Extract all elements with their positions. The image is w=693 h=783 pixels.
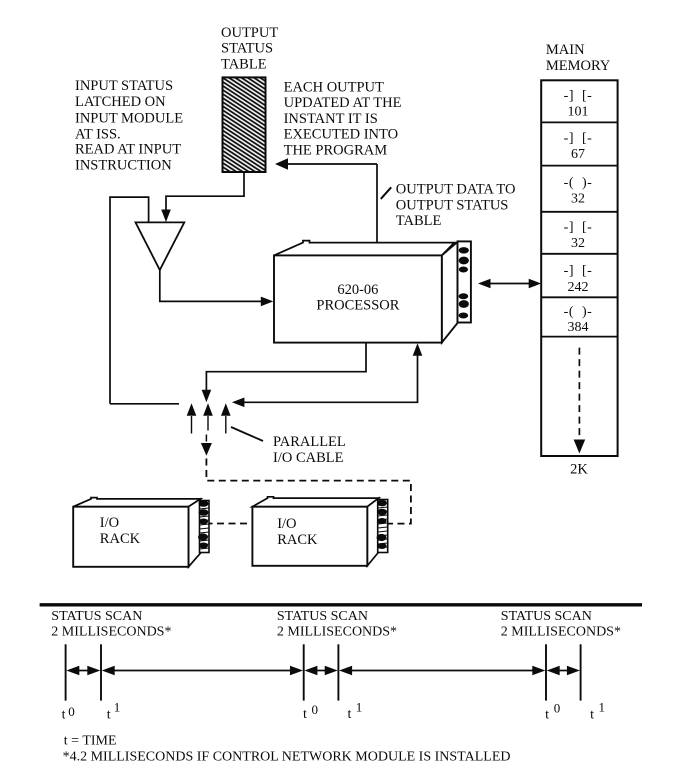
processor box (3D) [274, 241, 471, 343]
svg-text:*4.2 MILLISECONDS IF CONTROL N: *4.2 MILLISECONDS IF CONTROL NETWORK MOD… [63, 749, 511, 764]
wire: double arrow processor <-> main memory [489, 283, 531, 285]
wire: triangle output to processor (arrow right) [160, 270, 265, 301]
svg-text:THE PROGRAM: THE PROGRAM [284, 143, 388, 159]
svg-text:-] [-: -] [- [564, 220, 593, 235]
svg-text:67: 67 [571, 147, 585, 162]
span arrow long 2 [349, 670, 535, 672]
wire: stem from hatched table down-left into buffer triangle (arrowhead) [166, 172, 244, 211]
svg-text:STATUS SCAN: STATUS SCAN [277, 609, 368, 624]
svg-text:MEMORY: MEMORY [546, 58, 611, 74]
svg-text:OUTPUT: OUTPUT [221, 25, 278, 41]
svg-text:t: t [590, 708, 594, 723]
svg-text:0: 0 [312, 702, 319, 717]
svg-text:I/O CABLE: I/O CABLE [273, 450, 344, 466]
svg-text:2K: 2K [570, 462, 588, 478]
svg-text:AT ISS.: AT ISS. [75, 127, 121, 143]
svg-text:PROCESSOR: PROCESSOR [316, 298, 399, 314]
svg-text:t: t [545, 708, 549, 723]
svg-text:101: 101 [568, 104, 589, 119]
svg-text:MAIN: MAIN [546, 42, 585, 58]
dashed link rack1 to rack2 [194, 523, 252, 525]
svg-text:t: t [303, 707, 307, 722]
svg-text:2 MILLISECONDS*: 2 MILLISECONDS* [501, 625, 621, 640]
svg-text:INSTANT IT IS: INSTANT IT IS [284, 111, 378, 127]
timeline ticks [66, 644, 581, 700]
I/O rack 1 (3D box) [73, 498, 209, 567]
svg-text:t = TIME: t = TIME [64, 734, 117, 749]
wire: left feedback line bottom run [110, 403, 179, 405]
I/O rack 2 (3D box) [252, 497, 387, 566]
svg-text:EACH OUTPUT: EACH OUTPUT [284, 79, 384, 95]
svg-text:384: 384 [568, 320, 589, 335]
dashed arrow inside bottom memory cell [578, 348, 580, 438]
span arrow t0-t1 group2 [314, 670, 328, 672]
span arrow t0-t1 group3 [556, 670, 570, 672]
svg-text:242: 242 [568, 280, 589, 295]
svg-text:EXECUTED INTO: EXECUTED INTO [284, 127, 399, 143]
parallel cable up arrow 3 [225, 416, 227, 434]
svg-text:RACK: RACK [100, 531, 141, 547]
wire: processor bottom to cable cluster (down arrow) [206, 343, 366, 390]
svg-text:1: 1 [356, 700, 363, 715]
svg-text:t: t [107, 708, 111, 723]
rack 2 connector ladder + ovals [378, 503, 388, 548]
svg-text:INPUT MODULE: INPUT MODULE [75, 110, 183, 126]
svg-text:RACK: RACK [277, 532, 318, 548]
callout slash for OUTPUT DATA TO label [381, 187, 391, 199]
rack 1 connector ladder + ovals [200, 504, 210, 549]
main memory box [541, 80, 617, 456]
svg-text:PARALLEL: PARALLEL [273, 434, 346, 450]
svg-text:I/O: I/O [277, 516, 296, 532]
svg-text:32: 32 [571, 192, 585, 207]
buffer triangle [136, 222, 185, 270]
span arrow t0-t1 group1 [76, 670, 91, 672]
parallel cable up arrow 1 [191, 416, 193, 434]
svg-text:TABLE: TABLE [396, 213, 442, 229]
svg-text:I/O: I/O [100, 515, 119, 531]
svg-text:1: 1 [114, 700, 121, 715]
memory cell dividers [541, 122, 617, 336]
svg-text:-] [-: -] [- [564, 131, 593, 146]
svg-text:OUTPUT DATA TO: OUTPUT DATA TO [396, 182, 516, 198]
svg-text:0: 0 [554, 701, 561, 716]
wire: left feedback line top run into triangle [110, 197, 149, 404]
parallel cable down arrow (dashed tail) [205, 435, 207, 442]
svg-text:INSTRUCTION: INSTRUCTION [75, 157, 172, 173]
dashed cable path to I/O racks [206, 459, 411, 524]
svg-text:t: t [62, 708, 66, 723]
svg-text:STATUS: STATUS [221, 41, 273, 57]
svg-text:LATCHED ON: LATCHED ON [75, 94, 166, 110]
span arrow long 1 [112, 670, 293, 672]
output status table (hatched box) [223, 77, 266, 172]
svg-text:-( )-: -( )- [564, 305, 593, 320]
wire: arrow into output status table [287, 163, 377, 165]
wire: cable cluster to processor bottom (up arrow + left arrow) [413, 343, 423, 356]
timing separator thick bar [40, 603, 642, 606]
svg-text:t: t [348, 707, 352, 722]
parallel cable up arrow 2 [207, 416, 209, 431]
svg-text:2 MILLISECONDS*: 2 MILLISECONDS* [277, 625, 397, 640]
svg-text:STATUS SCAN: STATUS SCAN [501, 609, 592, 624]
svg-text:1: 1 [599, 700, 606, 715]
callout line: parallel I/O cable [231, 427, 263, 441]
svg-text:STATUS SCAN: STATUS SCAN [51, 609, 142, 624]
svg-text:2 MILLISECONDS*: 2 MILLISECONDS* [51, 625, 171, 640]
wire: vertical from output-data line down to processor top [376, 164, 378, 249]
svg-text:-] [-: -] [- [564, 264, 593, 279]
processor connector ovals [459, 247, 469, 318]
svg-text:620-06: 620-06 [337, 282, 378, 298]
svg-text:TABLE: TABLE [221, 56, 267, 72]
svg-text:32: 32 [571, 236, 585, 251]
svg-text:UPDATED AT THE: UPDATED AT THE [284, 95, 402, 111]
svg-text:READ AT INPUT: READ AT INPUT [75, 142, 181, 158]
svg-text:0: 0 [68, 704, 75, 719]
svg-text:INPUT STATUS: INPUT STATUS [75, 78, 173, 94]
svg-text:OUTPUT STATUS: OUTPUT STATUS [396, 197, 509, 213]
svg-text:-( )-: -( )- [564, 176, 593, 191]
svg-text:-] [-: -] [- [564, 88, 593, 103]
